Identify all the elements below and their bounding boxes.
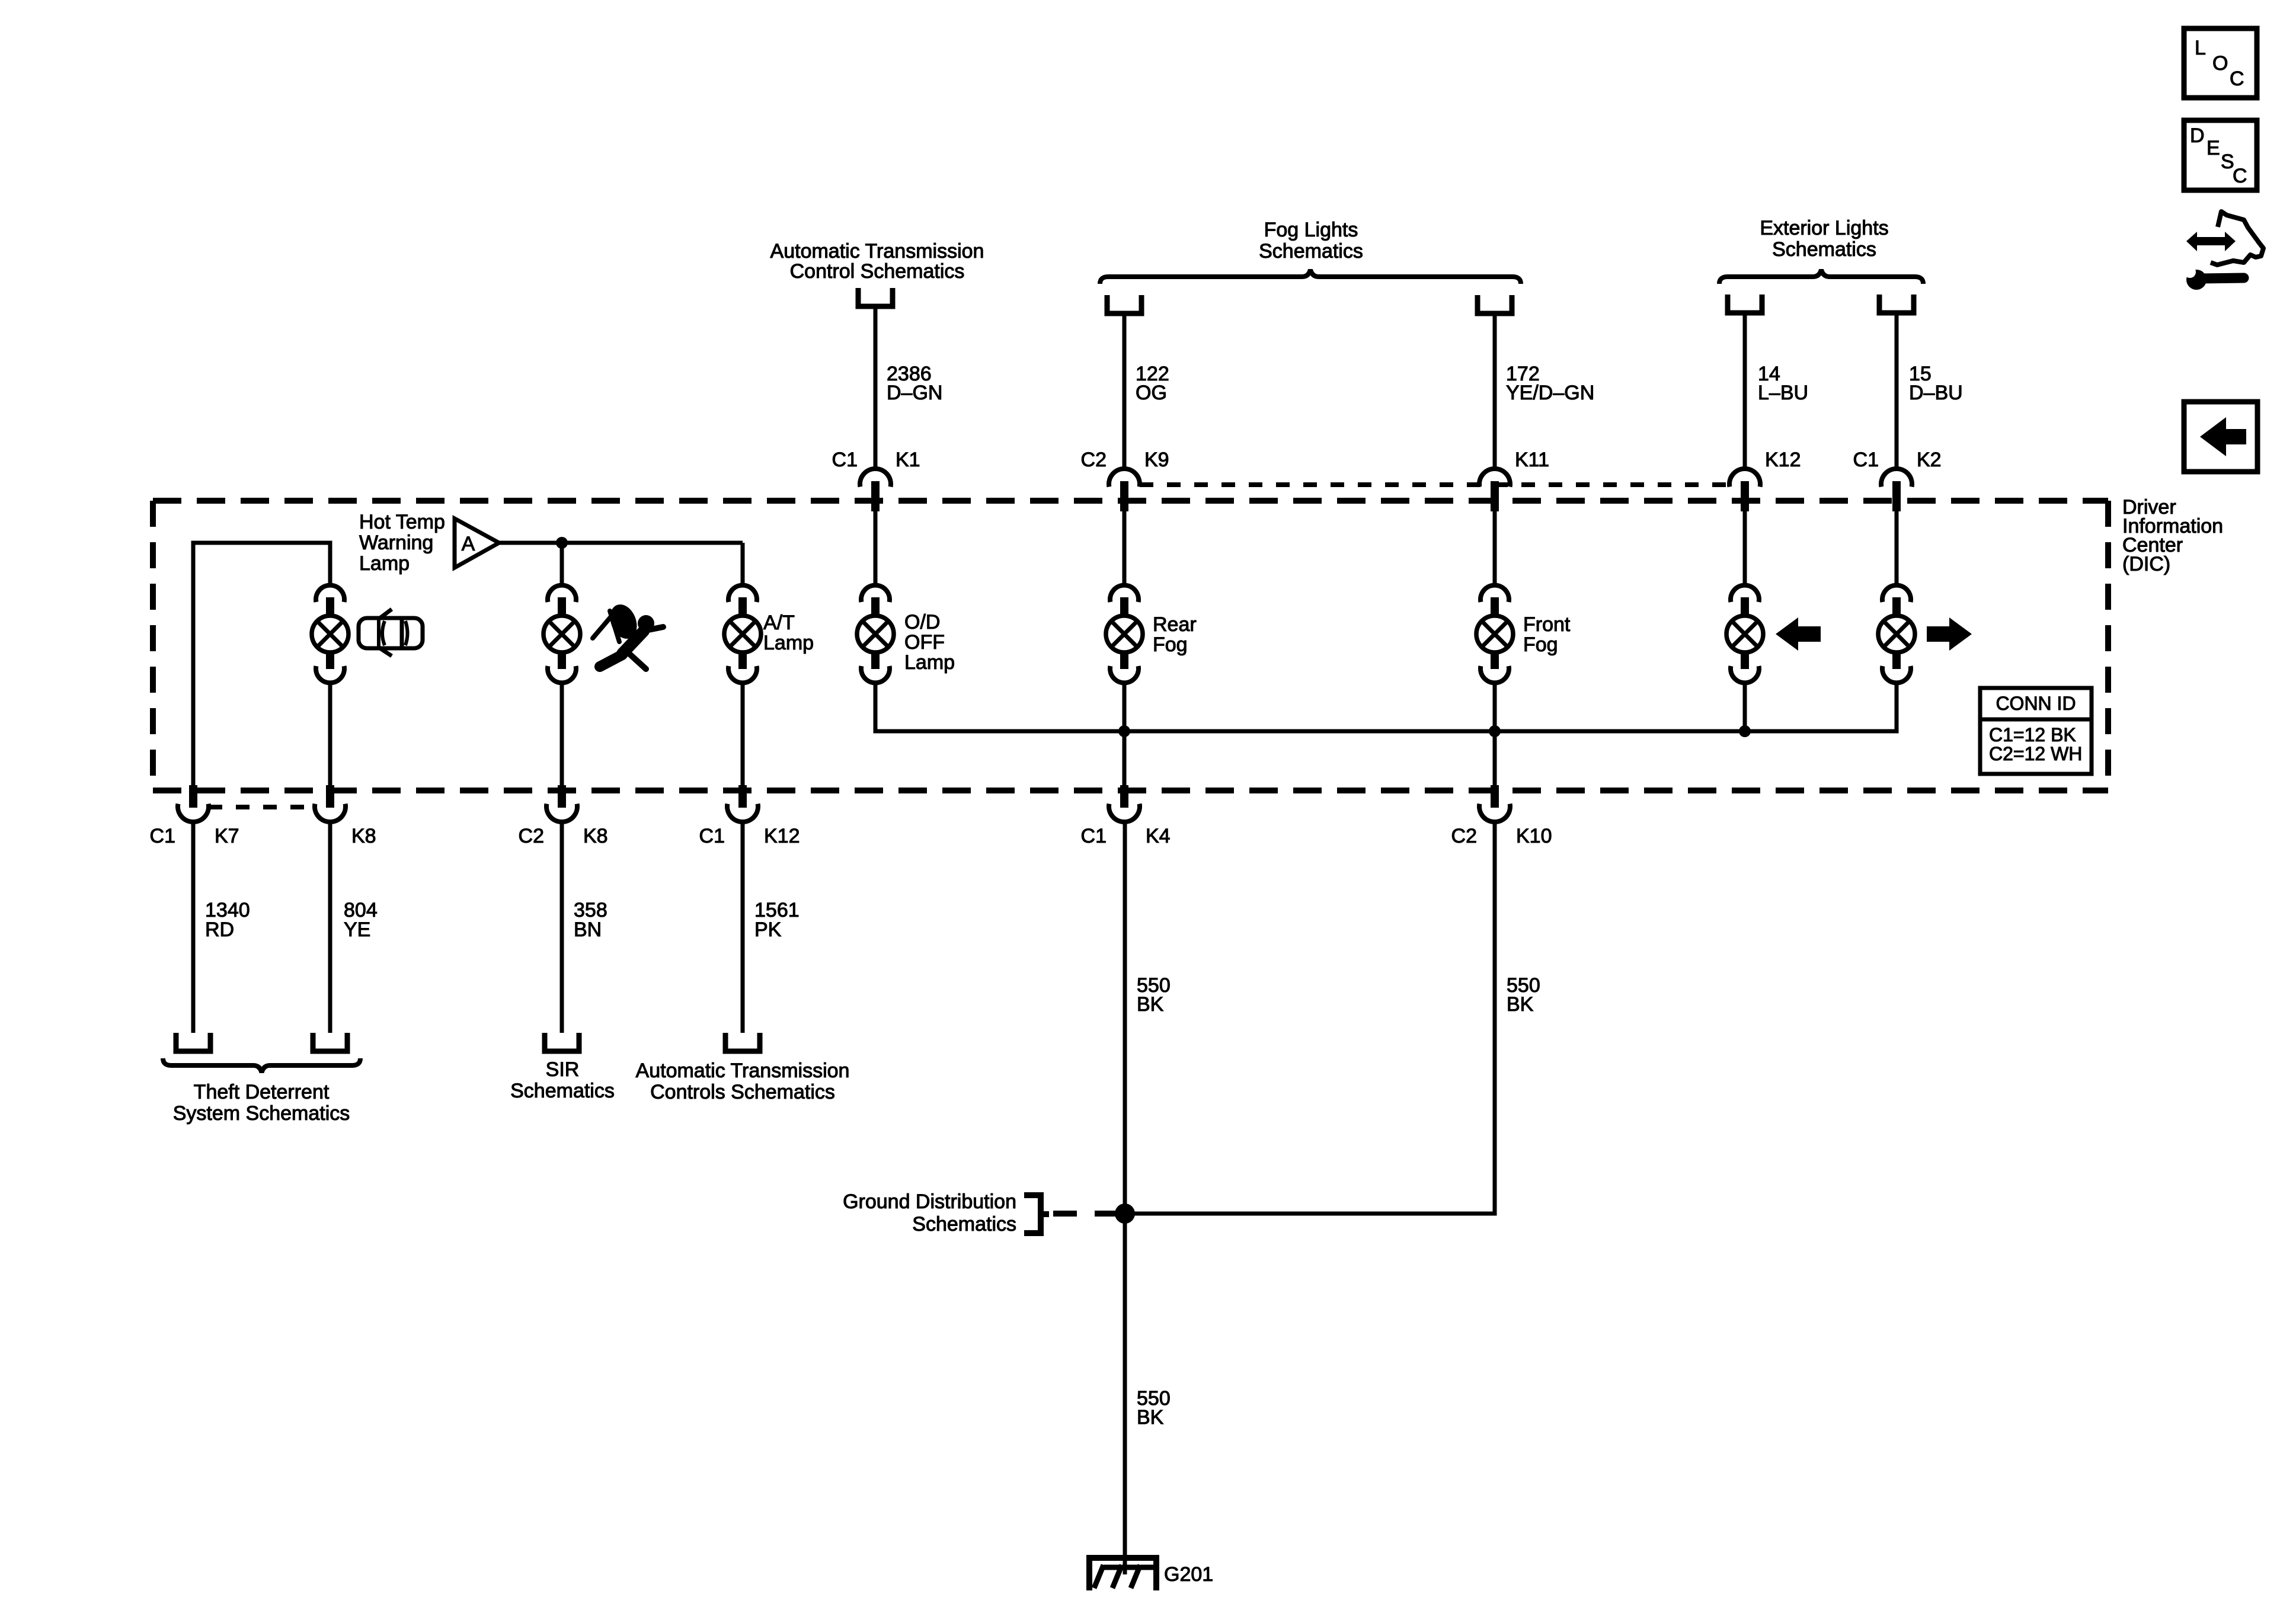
svg-text:BN: BN [574,918,602,941]
label: Front Fog [1523,613,1571,656]
wire front fog lamp feed [1493,510,1497,587]
wire from node A [499,541,743,545]
connector C2 K8 [546,785,577,822]
wire O/D lamp feed [874,510,878,587]
svg-text:Schematics: Schematics [1772,238,1876,261]
icon: left arrow [1776,617,1821,651]
dashed leader to ground junction [1053,1211,1115,1217]
pin labels C2 K9 [1081,449,1169,471]
svg-text:L: L [2195,37,2206,59]
connector C1 K4 [1109,785,1140,822]
svg-text:C1: C1 [832,449,858,471]
wire left turn lamp feed [1743,510,1747,587]
svg-text:C1: C1 [1853,449,1879,471]
lamp: theft deterrent indicator [312,585,348,683]
wire A/T lamp to C1 K12 [741,683,745,788]
ground G201 [1089,1555,1156,1590]
svg-text:Schematics: Schematics [1259,240,1363,263]
pin labels C2 K8 [519,825,608,847]
label: Hot Temp Warning Lamp [359,511,445,575]
wire SIR lamp to C2 K8 [560,683,564,788]
off-page connector: exterior lights right [1879,295,1914,313]
svg-text:Ground Distribution: Ground Distribution [843,1190,1016,1213]
svg-text:Schematics: Schematics [510,1080,615,1102]
wire front fog return [1493,683,1497,788]
lamp: rear fog indicator [1106,585,1143,683]
svg-text:CONN ID: CONN ID [1996,693,2076,714]
svg-text:SIR: SIR [546,1058,580,1081]
svg-text:RD: RD [205,918,234,941]
bracket: ground distribution ref [1024,1195,1049,1233]
brace: exterior lights [1719,270,1923,284]
pin labels C2 K10 [1451,825,1552,847]
wire 550 BK (K10 branch) [1125,822,1495,1214]
svg-text:C2=12 WH: C2=12 WH [1989,743,2082,764]
component box: Driver Information Center (dashed) [153,501,2108,790]
pin label K12 [1765,449,1801,471]
lamp: SIR indicator [543,585,580,683]
wire 358 BN [560,822,564,1033]
svg-text:OFF: OFF [904,631,945,654]
wire left turn return [1743,683,1747,731]
wire rear fog lamp feed [1123,510,1127,587]
svg-text:C1=12 BK: C1=12 BK [1989,724,2076,745]
pin labels C1 K12 [699,825,800,847]
svg-text:K10: K10 [1516,825,1552,847]
wire lamp return bus [875,683,1897,731]
svg-text:Front: Front [1523,613,1571,636]
svg-text:(DIC): (DIC) [2122,553,2170,575]
value label 2386 D-GN [887,363,942,404]
lamp: A/T indicator [724,585,761,683]
legend box DESC [2184,120,2257,190]
value label 550 BK (below splice) [1137,1387,1171,1429]
svg-text:Fog: Fog [1523,633,1558,656]
wire SIR lamp feed [560,543,564,587]
ground label G201 [1164,1563,1213,1586]
label: SIR Schematics [510,1058,615,1102]
table: CONN ID [1980,688,2092,774]
svg-text:C2: C2 [519,825,544,847]
svg-text:Fog: Fog [1153,633,1188,656]
label: Theft Deterrent System Schematics [173,1081,350,1125]
svg-text:C2: C2 [1081,449,1107,471]
svg-text:PK: PK [754,918,782,941]
dotted link K7 to K8 [209,805,315,809]
value label 15 D-BU [1909,363,1963,404]
wire 14 L-BU [1743,315,1747,469]
svg-text:Exterior Lights: Exterior Lights [1760,217,1888,239]
svg-text:O/D: O/D [904,611,940,633]
value label 358 BN [574,899,607,941]
pin labels C1 K4 [1081,825,1171,847]
label: Driver Information Center (DIC) [2122,496,2223,575]
junction front fog return [1489,725,1501,737]
pin label K11 [1515,449,1549,471]
svg-text:Automatic Transmission: Automatic Transmission [636,1060,850,1082]
svg-text:OG: OG [1136,382,1167,404]
off-page connector: automatic transmission control [858,288,893,306]
wire right turn lamp feed [1895,510,1899,587]
connector C1 K7 [178,785,209,822]
off-page connector: theft deterrent left [176,1033,210,1051]
svg-text:Theft Deterrent: Theft Deterrent [194,1081,330,1103]
connector K11 [1479,469,1510,511]
svg-text:YE: YE [344,918,370,941]
brace: fog lights [1100,270,1521,284]
label: Automatic Transmission Controls Schematics [636,1060,850,1103]
junction left turn return [1739,725,1751,737]
wire 804 YE [328,822,332,1033]
wire 1561 PK [741,822,745,1033]
svg-text:Fog Lights: Fog Lights [1264,219,1358,241]
junction at SIR lamp feed [556,537,568,549]
svg-text:Schematics: Schematics [912,1213,1016,1235]
wire 172 YE/D-GN [1493,316,1497,469]
brace: theft deterrent [163,1058,360,1073]
label: Fog Lights Schematics [1259,219,1363,263]
svg-text:K8: K8 [583,825,608,847]
wire lamp K8 drop [328,683,332,788]
wire 550 BK (K4 to ground) [1123,822,1127,1561]
wire 2386 D-GN [874,309,878,469]
svg-text:Hot Temp: Hot Temp [359,511,445,533]
svg-text:System Schematics: System Schematics [173,1102,350,1125]
label: Ground Distribution Schematics [843,1190,1016,1235]
label: A/T Lamp [763,612,814,654]
icon: airbag warning [593,600,663,669]
svg-text:Lamp: Lamp [763,632,814,654]
connector K8 (theft) [315,785,346,822]
lamp: O/D OFF indicator [857,585,894,683]
connector C1 K2 [1881,469,1912,511]
svg-text:C1: C1 [1081,825,1107,847]
wire A/T lamp feed [741,543,745,587]
value label 1340 RD [205,899,250,941]
svg-text:A/T: A/T [763,612,795,634]
legend box back-arrow [2184,402,2257,472]
svg-text:O: O [2212,52,2228,75]
value label 14 L-BU [1758,363,1808,404]
value label 122 OG [1136,363,1169,404]
svg-text:BK: BK [1137,993,1164,1016]
svg-text:BK: BK [1507,993,1534,1016]
svg-text:Automatic Transmission: Automatic Transmission [770,240,984,263]
off-page connector: theft deterrent right [313,1033,347,1051]
connector C2 K10 [1479,785,1510,822]
svg-text:Lamp: Lamp [904,651,955,674]
connector C1 K12 [727,785,758,822]
svg-text:C: C [2233,165,2247,187]
lamp: front fog indicator [1476,585,1513,683]
pin labels C1 K1 [832,449,920,471]
connector C1 K1 [860,469,891,511]
svg-text:C1: C1 [150,825,175,847]
pin label K8 [351,825,376,847]
off-page connector: exterior lights left [1728,295,1762,313]
svg-text:D–BU: D–BU [1909,382,1963,404]
svg-text:K9: K9 [1144,449,1169,471]
svg-text:G201: G201 [1164,1563,1213,1586]
svg-text:Control Schematics: Control Schematics [790,260,965,283]
value label 804 YE [344,899,378,941]
value label 550 BK (branch) [1507,974,1540,1016]
node A (triangle) [455,518,499,568]
value label 550 BK [1137,974,1171,1016]
label: Exterior Lights Schematics [1760,217,1888,261]
svg-text:K11: K11 [1515,449,1549,471]
svg-text:C2: C2 [1451,825,1477,847]
off-page connector: automatic transmission controls [725,1033,760,1051]
wire 15 D-BU [1895,315,1899,469]
icon: vehicle (security lamp) [359,609,423,656]
svg-text:YE/D–GN: YE/D–GN [1506,382,1594,404]
svg-text:Warning: Warning [359,532,433,554]
svg-text:C: C [2230,68,2244,90]
pin labels C1 K7 [150,825,239,847]
legend icon: vehicle outline with double arrow and wrench [2184,212,2263,290]
off-page connector: fog lights right [1478,295,1512,313]
value label 1561 PK [754,899,800,941]
junction ground splice [1115,1204,1135,1224]
icon: right arrow [1927,617,1972,651]
svg-text:L–BU: L–BU [1758,382,1808,404]
svg-text:K12: K12 [764,825,800,847]
svg-text:K8: K8 [351,825,376,847]
connector C2 K9 [1109,469,1140,511]
label: Rear Fog [1153,613,1197,656]
label: O/D OFF Lamp [904,611,955,674]
wire 1340 RD [191,822,196,1033]
lamp: left turn indicator [1726,585,1763,683]
off-page connector: SIR [545,1033,579,1051]
svg-text:Controls Schematics: Controls Schematics [650,1081,835,1103]
svg-text:D: D [2190,124,2205,147]
connector K12 [1729,469,1760,511]
dotted link K9 to K12 [1140,482,1729,487]
value label 172 YE/D-GN [1506,363,1594,404]
svg-text:K1: K1 [896,449,920,471]
svg-text:K7: K7 [215,825,239,847]
svg-text:K4: K4 [1146,825,1171,847]
svg-text:Lamp: Lamp [359,552,410,575]
svg-text:A: A [462,533,475,555]
svg-text:K2: K2 [1917,449,1942,471]
svg-text:D–GN: D–GN [887,382,942,404]
svg-text:E: E [2207,137,2220,159]
svg-text:Rear: Rear [1153,613,1197,636]
label: Automatic Transmission Control Schematics [770,240,984,283]
pin labels C1 K2 [1853,449,1942,471]
svg-text:BK: BK [1137,1406,1164,1429]
wire rear fog return [1123,683,1127,788]
wire K7 riser [193,543,330,788]
wire 122 OG [1123,316,1127,469]
svg-text:K12: K12 [1765,449,1801,471]
off-page connector: fog lights left [1107,295,1141,313]
svg-text:C1: C1 [699,825,725,847]
lamp: right turn indicator [1878,585,1915,683]
junction rear fog return [1118,725,1130,737]
legend box LOC [2184,28,2257,98]
